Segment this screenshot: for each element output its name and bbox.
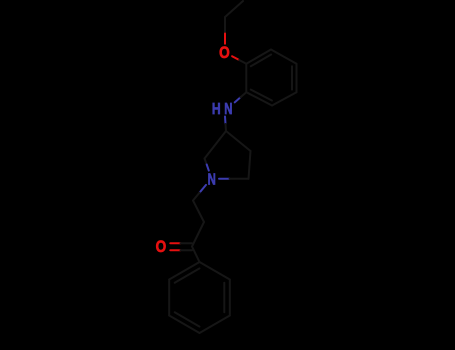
ring A inner double bond B-BL: [251, 90, 272, 101]
C=O double bond lower line black half: [181, 249, 193, 251]
ring B inner double bond B-BL: [175, 312, 200, 326]
ring P edge C4-C5: [205, 131, 227, 159]
bond CH2-O upper black half: [224, 17, 226, 34]
bond HN-C4 black half: [225, 124, 228, 131]
ring A inner double bond TL-T: [251, 55, 271, 67]
C=O double bond upper line red half: [170, 242, 180, 244]
ring P edge C2-C3: [249, 151, 251, 179]
benzene ring A (2-ethoxyphenyl): [246, 50, 296, 106]
bond O-C2 red half: [232, 56, 239, 60]
benzene ring B (phenyl): [169, 262, 230, 333]
ring A inner double bond TR-BR: [291, 66, 293, 89]
ring B edge BR-B: [200, 316, 230, 334]
ring A edge BL-TL: [245, 64, 247, 92]
ring P edge N1-C2 blue half: [219, 178, 230, 180]
ring B edge TL-T: [169, 262, 199, 280]
bond CH2-O lower red half: [224, 34, 226, 44]
ring P edge C5-N1 blue half: [207, 165, 209, 171]
C=O double bond lower line red half: [170, 249, 180, 251]
ring A edge TR-BR: [296, 64, 298, 92]
svg-text:O: O: [219, 43, 230, 62]
svg-text:N: N: [224, 101, 232, 118]
ring B edge TR-BR: [229, 280, 231, 316]
svg-text:N: N: [208, 171, 216, 188]
ring A edge BR-B: [272, 92, 297, 105]
ring A edge B-BL: [246, 92, 272, 105]
bond Ca-Cb: [193, 201, 204, 223]
bond Cb-Cc: [192, 222, 204, 247]
ring B inner double bond TR-BR: [223, 283, 225, 313]
C=O double bond upper line black half: [181, 242, 193, 244]
ring P edge C3-C4: [226, 131, 251, 151]
bond HN-C1 black half: [241, 92, 247, 97]
ring B edge B-BL: [169, 316, 199, 334]
pyrrolidine ring: [205, 131, 251, 179]
ring B inner double bond TL-T: [175, 268, 200, 282]
bond Cc-ipso: [192, 247, 200, 263]
ring P edge N1-C2 black half: [230, 178, 249, 180]
svg-text:H: H: [212, 101, 221, 118]
ring A edge T-TR: [271, 50, 297, 64]
svg-text:O: O: [156, 237, 167, 256]
bond HN-C1 blue half: [235, 97, 241, 102]
ring P edge C5-N1 black half: [205, 159, 207, 165]
bond HN-C4 blue half: [224, 117, 227, 125]
ring B edge BL-TL: [168, 280, 170, 316]
bond N1-Ca black half: [193, 193, 200, 201]
ring B edge T-TR: [200, 262, 230, 280]
bond N1-Ca blue half: [200, 185, 207, 193]
bond O-C2 black half: [239, 60, 246, 64]
bond CH3-CH2 (ethoxy ethyl): [225, 1, 243, 17]
ring A edge TL-T: [246, 50, 271, 64]
